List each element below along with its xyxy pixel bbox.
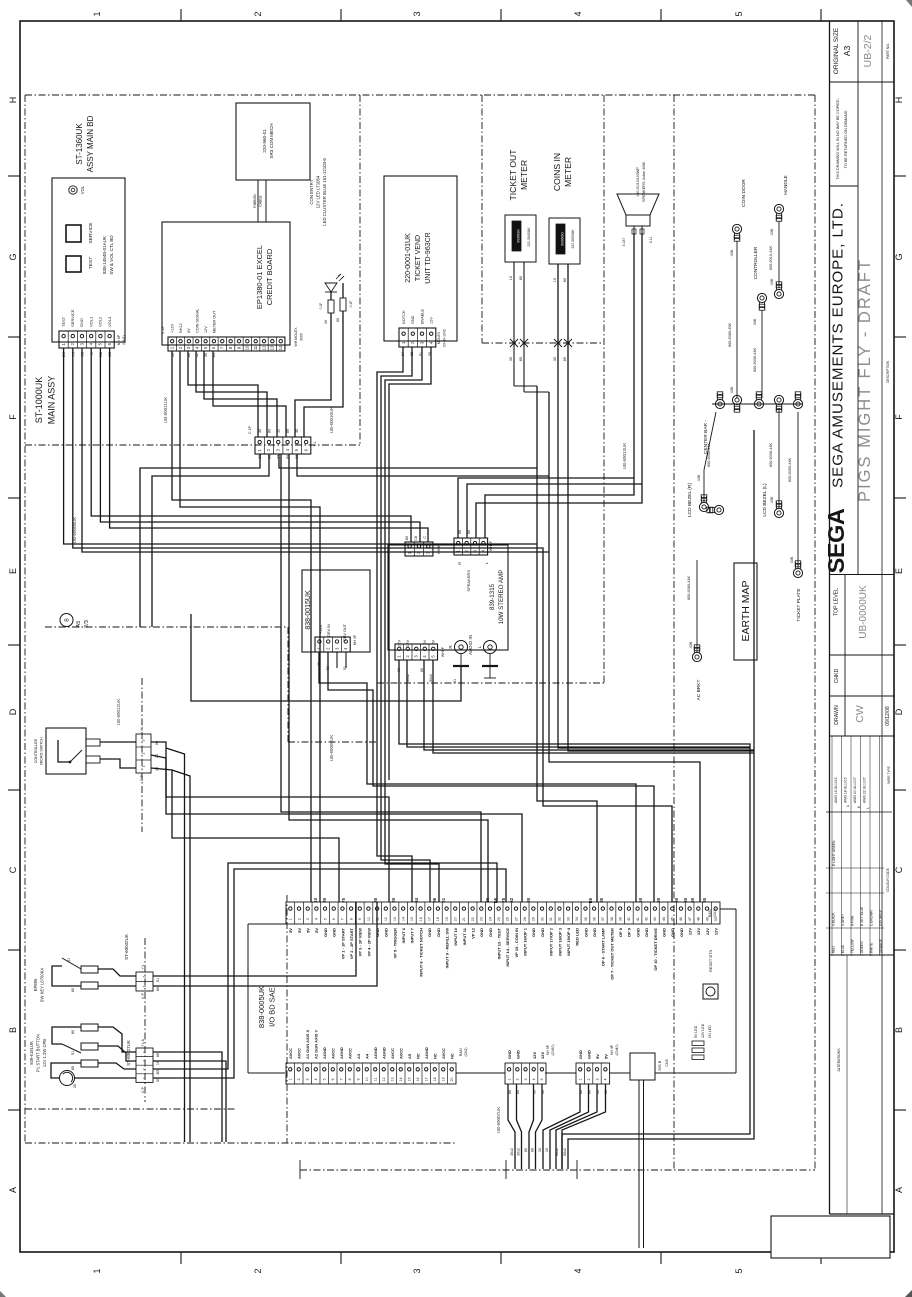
- svg-text:I/O BD SAE: I/O BD SAE: [268, 987, 277, 1027]
- svg-text:3: 3: [142, 740, 146, 742]
- connector RA50 CN1 50pin: [286, 902, 720, 924]
- wire nh4p harness: [543, 1084, 606, 1169]
- svg-text:AWG 16 UL1015: AWG 16 UL1015: [834, 777, 838, 803]
- key connector wire labels: [156, 978, 160, 991]
- SEGA logo: [823, 508, 849, 573]
- svg-text:DESCRIPTION: DESCRIPTION: [886, 360, 890, 382]
- eyelet ac brkt: [692, 645, 702, 701]
- svg-text:THIS DRAWING WILL IN NO WAY BE: THIS DRAWING WILL IN NO WAY BE COPIED.: [836, 98, 840, 179]
- svg-text:10: 10: [313, 897, 318, 902]
- junction connector C1P-YL: [248, 425, 317, 454]
- svg-text:32: 32: [509, 897, 514, 902]
- svg-text:ST-1360UK: ST-1360UK: [75, 123, 84, 165]
- svg-text:1: 1: [143, 985, 147, 987]
- svg-text:10W STEREO AMP: 10W STEREO AMP: [498, 570, 505, 625]
- svg-text:5: 5: [323, 1078, 327, 1080]
- svg-text:VP 2 - 2P START: VP 2 - 2P START: [349, 927, 354, 959]
- wire controller pin1: [151, 742, 522, 902]
- svg-text:NH 4P: NH 4P: [610, 1044, 614, 1055]
- NH4P wire labels: [579, 1090, 608, 1094]
- svg-text:UB-60011UK: UB-60011UK: [163, 397, 168, 423]
- svg-text:0V: 0V: [187, 328, 191, 333]
- svg-text:E: E: [894, 568, 904, 574]
- connector NH4P on 0015UK: [315, 637, 350, 652]
- svg-text:130-013-0440WP: 130-013-0440WP: [636, 167, 640, 197]
- svg-text:220-5643UK: 220-5643UK: [527, 227, 531, 247]
- svg-text:PIGS MIGHT FLY - DRAFT: PIGS MIGHT FLY - DRAFT: [856, 258, 874, 502]
- center bar junction: [712, 392, 803, 412]
- svg-text:JVS B: JVS B: [658, 1060, 662, 1071]
- key contact 1: [62, 958, 98, 973]
- svg-text:20: 20: [454, 917, 458, 921]
- wire ticket vend 12v: [389, 347, 431, 780]
- svg-text:43K: 43K: [753, 318, 757, 325]
- svg-text:GND: GND: [592, 928, 597, 937]
- svg-text:NC: NC: [450, 1053, 455, 1059]
- partition ST-1360UK right: [359, 95, 361, 445]
- svg-text:600-9030-44K: 600-9030-44K: [769, 443, 773, 468]
- coin mech 220-560-01: [236, 103, 310, 180]
- wire ticket vend enable: [385, 347, 439, 902]
- svg-text:EP1380-01 EXCEL: EP1380-01 EXCEL: [255, 245, 264, 309]
- svg-text:A3: A3: [356, 1053, 361, 1059]
- svg-text:H: H: [8, 97, 18, 104]
- service button: [66, 223, 94, 244]
- wire credit pin5 to junction: [204, 351, 277, 437]
- svg-text:30x2: 30x2: [517, 1148, 521, 1156]
- svg-text:43K: 43K: [770, 278, 774, 285]
- svg-text:36: 36: [592, 917, 596, 921]
- svg-text:89: 89: [286, 429, 290, 433]
- start contact 3: [71, 1060, 98, 1070]
- svg-text:OP 7 - TICKET OUT METER: OP 7 - TICKET OUT METER: [609, 928, 614, 980]
- svg-text:5V: 5V: [297, 928, 302, 933]
- svg-text:A5: A5: [76, 621, 82, 628]
- svg-text:43K: 43K: [770, 496, 774, 503]
- svg-text:GND: GND: [332, 928, 337, 937]
- svg-text:43K: 43K: [697, 474, 701, 481]
- svg-text:12V: 12V: [687, 928, 692, 935]
- svg-text:3: 3: [306, 918, 310, 920]
- svg-text:E: E: [8, 568, 18, 574]
- svg-text:SERVICE: SERVICE: [70, 309, 75, 327]
- svg-text:30: 30: [295, 429, 299, 433]
- svg-text:NH12: NH12: [179, 323, 183, 333]
- svg-text:17: 17: [425, 1077, 429, 1081]
- connector NH3P on amp: [405, 542, 441, 556]
- svg-text:TO BE RETURNED ON DEMAND.: TO BE RETURNED ON DEMAND.: [844, 110, 848, 169]
- wire key 1: [98, 969, 136, 976]
- svg-text:1: 1: [92, 11, 102, 16]
- svg-text:12V: 12V: [398, 640, 402, 647]
- svg-text:AVCC: AVCC: [441, 1048, 446, 1059]
- svg-text:2: 2: [253, 11, 263, 16]
- RA20 CN2 label: [459, 1047, 468, 1056]
- coins in meter splice labels: [553, 357, 567, 361]
- svg-text:UB-60010UK: UB-60010UK: [329, 407, 334, 434]
- amp WH5P wire labels: [397, 668, 433, 682]
- svg-text:838-0005UK: 838-0005UK: [257, 986, 266, 1028]
- svg-text:43K: 43K: [689, 641, 693, 648]
- svg-text:10: 10: [365, 1077, 369, 1081]
- svg-text:RA20: RA20: [459, 1048, 463, 1057]
- NH5P pin labels: [507, 1050, 545, 1059]
- svg-text:24: 24: [488, 917, 492, 921]
- svg-text:WH5P: WH5P: [441, 646, 445, 657]
- audio jack R: [448, 641, 468, 654]
- svg-text:A4: A4: [365, 1053, 370, 1059]
- wire swvol test: [64, 348, 537, 544]
- svg-text:19: 19: [442, 1077, 446, 1081]
- ticket out meter splice labels: [509, 357, 523, 361]
- svg-text:80: 80: [156, 987, 160, 991]
- svg-text:48: 48: [697, 917, 701, 921]
- svg-text:43K: 43K: [730, 386, 734, 393]
- svg-text:80: 80: [656, 897, 661, 902]
- svg-text:Y L: Y L: [140, 726, 144, 731]
- svg-text:Y L A: Y L A: [141, 1038, 145, 1047]
- svg-text:LCD BEZEL (L): LCD BEZEL (L): [762, 483, 768, 517]
- start left loop 1: [52, 1027, 81, 1044]
- connector RA20 CN2 20pin: [286, 1063, 456, 1084]
- eyelet controller pair: [753, 246, 784, 325]
- svg-text:GND: GND: [436, 928, 441, 937]
- wire audio cable: [191, 614, 496, 701]
- svg-text:ST-60027UK: ST-60027UK: [126, 1040, 131, 1066]
- svg-text:B5: B5: [588, 897, 593, 903]
- svg-text:C8: C8: [414, 536, 418, 541]
- board name text: [102, 235, 114, 275]
- svg-text:600-9030-44K: 600-9030-44K: [707, 443, 711, 468]
- svg-text:46: 46: [679, 917, 683, 921]
- svg-text:12V: 12V: [430, 317, 434, 324]
- wire lcd bezel r earth: [697, 412, 716, 502]
- svg-text:D: D: [894, 708, 904, 715]
- svg-text:50: 50: [638, 897, 643, 902]
- svg-text:51: 51: [67, 958, 71, 962]
- svg-text:86: 86: [458, 530, 462, 534]
- connector MOLEX 03-09-1042: [399, 328, 447, 347]
- partition ticket vend right: [481, 95, 483, 343]
- svg-text:GND: GND: [583, 928, 588, 937]
- svg-text:10: 10: [367, 917, 371, 921]
- key switch EP895: [33, 967, 45, 1002]
- svg-text:2: 2: [253, 1268, 263, 1273]
- connector SP WH4P on amp: [454, 538, 493, 555]
- svg-text:B5: B5: [156, 1070, 160, 1075]
- svg-text:VOL3: VOL3: [107, 316, 112, 327]
- controller micro switch: [34, 728, 86, 774]
- svg-text:DRAWN: DRAWN: [834, 705, 840, 725]
- connector WH MOLEX 3069: [161, 325, 304, 351]
- svg-text:METER: METER: [519, 160, 529, 190]
- svg-text:WH4P: WH4P: [489, 540, 493, 551]
- svg-text:VP 5 - TRIGGER: VP 5 - TRIGGER: [392, 928, 397, 958]
- svg-text:31: 31: [549, 917, 553, 921]
- svg-text:(CN1): (CN1): [122, 335, 126, 345]
- svg-text:SR3 CON MECH: SR3 CON MECH: [269, 123, 274, 158]
- svg-text:43K: 43K: [770, 228, 774, 235]
- svg-text:9: 9: [358, 918, 362, 920]
- svg-text:12V 1.2W CPB: 12V 1.2W CPB: [42, 1039, 47, 1067]
- svg-text:80: 80: [467, 530, 471, 534]
- start lamp: [60, 1071, 78, 1089]
- audio shield R: [453, 654, 469, 666]
- partition meters bottom: [482, 342, 604, 344]
- svg-text:AGND: AGND: [339, 1047, 344, 1059]
- svg-text:A PINK: A PINK: [851, 915, 855, 926]
- svg-text:0.1F: 0.1F: [319, 303, 323, 310]
- svg-text:OP 6 - START LAMP: OP 6 - START LAMP: [601, 928, 606, 966]
- svg-text:GND: GND: [411, 315, 415, 324]
- svg-text:41: 41: [636, 917, 640, 921]
- cabinet boundary dash-dot top: [25, 94, 815, 96]
- svg-text:80: 80: [156, 1053, 160, 1057]
- svg-text:L: L: [866, 807, 870, 809]
- sheet number UB-2/2: [862, 35, 874, 68]
- svg-text:19: 19: [445, 917, 449, 921]
- svg-text:GND: GND: [679, 928, 684, 937]
- svg-text:12V: 12V: [696, 928, 701, 935]
- svg-text:999990: 999990: [516, 229, 521, 243]
- svg-text:TICKET OUT: TICKET OUT: [508, 149, 518, 201]
- svg-text:89: 89: [563, 357, 567, 361]
- resistor R1 0.1F: [319, 300, 334, 313]
- svg-text:EP895: EP895: [33, 978, 38, 991]
- drawn field: [834, 705, 891, 726]
- harness wire type labels: [510, 1148, 567, 1156]
- top level field: [834, 585, 870, 639]
- original size field: [833, 28, 890, 74]
- wire drv 2: [328, 652, 654, 902]
- svg-text:23: 23: [480, 917, 484, 921]
- ticket vend wire labels: [401, 352, 432, 356]
- svg-text:3: 3: [524, 1078, 528, 1080]
- wire credit pin1 +12V: [172, 351, 311, 902]
- svg-text:14: 14: [399, 1077, 403, 1081]
- svg-text:12V: 12V: [532, 1052, 537, 1059]
- svg-text:HANDLE: HANDLE: [783, 175, 789, 194]
- svg-text:VP 3 - 1P VIEW: VP 3 - 1P VIEW: [358, 928, 363, 957]
- svg-text:10: 10: [509, 276, 513, 280]
- svg-text:86: 86: [432, 897, 437, 902]
- connector NH 4P CN40: [576, 1044, 619, 1084]
- svg-text:UB-60013UK: UB-60013UK: [622, 443, 627, 470]
- wire amp power 2: [407, 660, 750, 747]
- svg-text:6: 6: [332, 918, 336, 920]
- svg-text:27: 27: [514, 917, 518, 921]
- main assy boundary bottom left: [25, 1142, 455, 1144]
- svg-text:MAIN ASSY: MAIN ASSY: [47, 376, 57, 425]
- wire credit pin3 to junction: [188, 351, 258, 437]
- svg-text:09/12/08: 09/12/08: [885, 706, 891, 726]
- svg-text:WIRE TYPE: WIRE TYPE: [887, 766, 891, 783]
- svg-text:2: 2: [297, 1078, 301, 1080]
- speaker terminal labels: [622, 237, 653, 247]
- svg-text:A5: A5: [407, 1053, 412, 1059]
- svg-text:80: 80: [702, 897, 707, 902]
- wire ticket out meter -: [524, 262, 549, 392]
- svg-text:32: 32: [558, 917, 562, 921]
- svg-text:600-9060-45K: 600-9060-45K: [728, 323, 732, 348]
- led 5V: [692, 1025, 704, 1045]
- SW board pin labels: [61, 309, 112, 327]
- svg-text:21: 21: [462, 917, 466, 921]
- svg-text:D: D: [8, 708, 18, 715]
- svg-text:INPUT 17/OP 2: INPUT 17/OP 2: [549, 927, 554, 955]
- wire speaker -: [476, 233, 642, 538]
- svg-text:UB-60007UK: UB-60007UK: [496, 1107, 501, 1134]
- svg-text:51: 51: [71, 1051, 75, 1055]
- svg-text:42: 42: [645, 917, 649, 921]
- wire right bus 754: [568, 430, 754, 1169]
- svg-text:11: 11: [253, 345, 258, 350]
- coins in meter 220-5653UK: [549, 218, 580, 264]
- svg-text:33: 33: [566, 917, 570, 921]
- wire ticket vend gnd: [381, 347, 430, 902]
- start contact 1: [71, 1024, 98, 1034]
- label ST-60027UK: [126, 1040, 131, 1066]
- wire controller pin2: [151, 755, 389, 902]
- svg-text:GND: GND: [635, 928, 640, 937]
- svg-text:UB-60009UK: UB-60009UK: [329, 735, 334, 762]
- label UB-60008UK: [72, 517, 77, 544]
- wire spare: [388, 783, 390, 785]
- svg-text:GND: GND: [323, 928, 328, 937]
- svg-text:AVCC: AVCC: [348, 1048, 353, 1059]
- svg-text:D PURPLE: D PURPLE: [879, 909, 883, 926]
- svg-text:11: 11: [374, 1078, 378, 1082]
- svg-text:600-9090-44K: 600-9090-44K: [788, 458, 792, 483]
- svg-text:12V LED: 12V LED: [701, 1023, 705, 1038]
- svg-text:AUDIO IN: AUDIO IN: [468, 635, 473, 655]
- ribbon cable: [253, 180, 266, 222]
- svg-text:RIBBON: RIBBON: [253, 194, 257, 208]
- svg-text:INPUT 14 - SERVICE: INPUT 14 - SERVICE: [505, 928, 510, 967]
- led 12V: [692, 1023, 705, 1052]
- svg-text:29: 29: [532, 917, 536, 921]
- wire junction out 4b: [289, 454, 488, 902]
- svg-text:7: 7: [340, 1078, 344, 1080]
- svg-text:SEGA: SEGA: [823, 508, 849, 573]
- svg-text:12V: 12V: [705, 928, 710, 935]
- svg-text:220-5653UK: 220-5653UK: [571, 229, 575, 249]
- svg-text:30x2: 30x2: [510, 1148, 514, 1156]
- svg-text:CHKD: CHKD: [834, 668, 840, 683]
- bottom corner box: [771, 1216, 890, 1258]
- svg-text:30: 30: [674, 897, 679, 902]
- controller harness long wire 2: [172, 770, 190, 1142]
- wire start lamp: [74, 1077, 136, 1079]
- svg-text:45: 45: [671, 917, 675, 921]
- lower-left assy partition: [286, 895, 288, 1143]
- drawing title PIGS MIGHT FLY - DRAFT: [856, 258, 890, 502]
- svg-text:LED CLUSTER BLUE 161-12103-6: LED CLUSTER BLUE 161-12103-6: [322, 158, 327, 226]
- credit board pin labels: [171, 309, 217, 333]
- svg-text:INPUT 6: INPUT 6: [401, 927, 406, 943]
- svg-text:LCD BEZEL (R): LCD BEZEL (R): [687, 483, 693, 517]
- svg-text:P1 START BUTTON: P1 START BUTTON: [36, 1034, 41, 1072]
- svg-text:B SKY BLUE: B SKY BLUE: [860, 906, 864, 926]
- svg-text:600-9060-44K: 600-9060-44K: [687, 576, 691, 601]
- svg-text:WH MOLEX: WH MOLEX: [294, 327, 298, 347]
- svg-text:INPUT 13 - TEST: INPUT 13 - TEST: [497, 927, 502, 959]
- svg-text:509-6191UK: 509-6191UK: [29, 1041, 34, 1065]
- label ST-1000UK MAIN ASSY: [34, 376, 57, 425]
- partition earth area left: [673, 95, 675, 1170]
- svg-text:C P: C P: [141, 992, 145, 998]
- wire lcd bezel l earth: [769, 408, 779, 508]
- svg-text:AVCC: AVCC: [390, 1048, 395, 1059]
- svg-text:PART NO.: PART NO.: [886, 43, 890, 59]
- svg-text:B: B: [894, 1027, 904, 1033]
- svg-text:5 WHITE: 5 WHITE: [870, 942, 874, 956]
- svg-text:F: F: [8, 414, 18, 420]
- test button: [66, 256, 94, 272]
- ticket vend unit 220-0001-01UK: [384, 176, 457, 341]
- svg-text:15: 15: [408, 1077, 412, 1081]
- svg-text:R: R: [457, 562, 462, 565]
- svg-text:UB-2/2: UB-2/2: [862, 35, 874, 68]
- JVS B connector CN5: [630, 1053, 669, 1080]
- label UB-60011UK: [163, 397, 168, 423]
- svg-text:18: 18: [433, 1077, 437, 1081]
- label UB-60013UK: [622, 443, 627, 470]
- svg-text:UB-0000UK: UB-0000UK: [858, 585, 869, 639]
- wire junction out 3: [279, 454, 537, 468]
- svg-text:NC: NC: [433, 1053, 438, 1059]
- svg-text:0.187: 0.187: [622, 238, 626, 247]
- svg-text:3: 3: [595, 1078, 599, 1080]
- junction connector wire labels top: [258, 429, 299, 433]
- svg-text:NC: NC: [416, 1053, 421, 1059]
- label UB-60009UK: [329, 735, 334, 762]
- wire swvol vol1: [91, 348, 411, 542]
- svg-text:0.11: 0.11: [649, 237, 653, 244]
- svg-text:G: G: [8, 253, 18, 260]
- earth map box: [734, 563, 757, 660]
- svg-text:GND: GND: [507, 1050, 512, 1059]
- svg-text:12: 12: [261, 345, 266, 350]
- alterations field: [837, 955, 847, 1214]
- svg-text:(CN40): (CN40): [615, 1045, 619, 1056]
- label ST-60032UK: [124, 934, 129, 960]
- svg-text:(CN50): (CN50): [551, 1045, 555, 1056]
- grid column numbers: [92, 11, 744, 1273]
- wire junction out 4a: [281, 454, 481, 902]
- svg-text:3069: 3069: [300, 333, 304, 341]
- sheet continuation boundary E: [45, 627, 377, 742]
- svg-text:15: 15: [410, 917, 414, 921]
- wire start out 4: [153, 869, 506, 1078]
- svg-text:5V LED: 5V LED: [694, 1025, 698, 1038]
- RA20 pin function labels: [288, 1029, 455, 1059]
- LED wire labels: [324, 318, 340, 324]
- svg-text:38: 38: [610, 917, 614, 921]
- board 838-0005UK I/O BD SAE outline: [248, 909, 736, 1073]
- svg-text:2/3: 2/3: [84, 620, 90, 628]
- svg-text:9 GREY: 9 GREY: [841, 913, 845, 926]
- svg-text:220-0001-01UK: 220-0001-01UK: [405, 233, 412, 283]
- svg-text:91: 91: [453, 679, 457, 683]
- svg-text:600-9010-44K: 600-9010-44K: [769, 246, 773, 271]
- wire key 2: [98, 985, 136, 987]
- NH4P pin labels: [578, 1050, 608, 1059]
- svg-text:4 GREEN: 4 GREEN: [860, 941, 864, 956]
- svg-text:30: 30: [258, 429, 262, 433]
- svg-text:30: 30: [553, 357, 557, 361]
- connector ST-60027UK 4pin: [136, 1038, 153, 1092]
